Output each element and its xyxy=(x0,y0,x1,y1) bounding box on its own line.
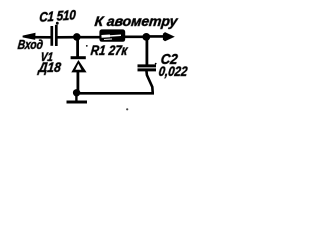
capacitor C2 xyxy=(138,66,157,70)
label Д18 xyxy=(38,60,62,74)
label: к авометру xyxy=(94,14,178,28)
stray speck bottom xyxy=(126,108,128,110)
resistor R1 xyxy=(99,29,125,41)
bottom rail wire with corner up to C2 xyxy=(77,71,154,94)
diode V1 cathode bar xyxy=(71,56,86,59)
node B (junction dot) xyxy=(142,33,150,41)
wire R1 to node B xyxy=(125,35,144,38)
wire node A down to diode xyxy=(76,39,79,57)
stray speck near R1 label xyxy=(86,45,88,47)
wire C1 to node A xyxy=(58,36,75,39)
input arrow (Вход terminal) xyxy=(23,33,51,40)
label V1 xyxy=(40,51,54,63)
wire node A to R1 xyxy=(79,36,101,39)
node A (junction dot) xyxy=(73,33,81,41)
label C1 value xyxy=(39,7,76,24)
wire node B to output arrow xyxy=(148,35,165,38)
wire diode to bottom junction xyxy=(77,72,80,93)
ground stem xyxy=(75,94,77,101)
diode V1 triangle xyxy=(71,60,86,72)
stray speck near C2 plate xyxy=(155,63,157,65)
bottom junction dot xyxy=(73,89,80,96)
label C2 value xyxy=(158,65,188,79)
label R1 value xyxy=(90,44,128,58)
wire node B down to C2 xyxy=(145,39,148,66)
label: Вход xyxy=(17,39,44,52)
output arrow (к авометру) xyxy=(163,32,175,41)
ground bar xyxy=(67,101,88,104)
label C2 xyxy=(160,52,178,67)
capacitor C1 xyxy=(52,22,59,46)
